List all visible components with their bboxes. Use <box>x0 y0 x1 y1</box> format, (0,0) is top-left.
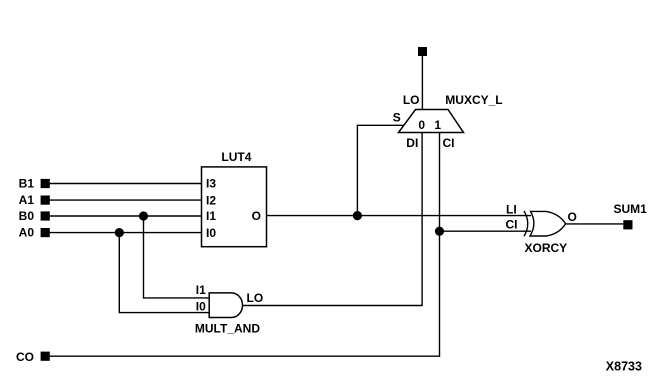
junction dot node CI <box>435 227 444 236</box>
MULT_AND AND gate U3 <box>209 293 242 318</box>
svg-text:CI: CI <box>506 218 518 232</box>
svg-text:MUXCY_L: MUXCY_L <box>445 93 502 107</box>
terminal CO <box>41 352 50 361</box>
terminal B0 <box>41 211 50 220</box>
wire XORCY O to SUM1 <box>566 223 624 225</box>
junction dot on B0 line <box>139 211 148 220</box>
terminal B1 <box>41 179 50 188</box>
wire CI branch to XORCY CI <box>440 230 532 232</box>
svg-text:CO: CO <box>16 350 34 364</box>
XORCY input arc <box>524 211 528 236</box>
svg-text:S: S <box>393 110 401 124</box>
svg-text:LI: LI <box>506 202 517 216</box>
svg-text:O: O <box>568 210 577 224</box>
svg-text:XORCY: XORCY <box>525 241 568 255</box>
svg-text:DI: DI <box>406 136 418 150</box>
svg-text:MULT_AND: MULT_AND <box>195 321 260 335</box>
svg-text:LO: LO <box>247 291 264 305</box>
wire B1 to LUT4 I3 <box>49 183 202 185</box>
LUT4 block U1 <box>202 167 267 247</box>
terminal SUM1 <box>623 220 632 229</box>
terminal top (MUXCY_L LO) <box>418 47 427 56</box>
svg-text:0: 0 <box>418 118 425 132</box>
svg-text:SUM1: SUM1 <box>614 202 648 216</box>
svg-text:LO: LO <box>403 93 420 107</box>
svg-text:A0: A0 <box>19 226 35 240</box>
junction dot node S on O line <box>353 211 362 220</box>
wire A1 to LUT4 I2 <box>49 199 202 201</box>
svg-text:A1: A1 <box>19 193 35 207</box>
svg-text:I0: I0 <box>206 226 216 240</box>
svg-text:1: 1 <box>434 118 441 132</box>
wire B0 branch to MULT_AND I1 <box>144 216 210 298</box>
MUXCY_L trapezoid U2 <box>399 110 464 133</box>
wire A0 branch to MULT_AND I0 <box>119 233 209 313</box>
svg-text:I0: I0 <box>196 299 206 313</box>
wire MUXCY_L LO to top terminal <box>421 51 423 110</box>
wire A0 to LUT4 I0 <box>49 232 202 234</box>
svg-text:O: O <box>252 209 261 223</box>
wire MULT_AND LO to MUXCY_L DI <box>243 133 423 306</box>
wire node S vertical to MUXCY_L S input <box>357 125 403 215</box>
svg-text:X8733: X8733 <box>606 359 642 373</box>
wire CO to MUXCY_L CI <box>49 133 440 357</box>
svg-text:I1: I1 <box>206 209 216 223</box>
XORCY gate U4 body <box>530 211 566 236</box>
wire B0 to LUT4 I1 <box>49 215 202 217</box>
svg-text:I3: I3 <box>206 177 216 191</box>
svg-text:I1: I1 <box>196 283 206 297</box>
svg-text:B0: B0 <box>19 209 35 223</box>
svg-text:I2: I2 <box>206 193 216 207</box>
terminal A1 <box>41 196 50 205</box>
svg-text:CI: CI <box>443 136 455 150</box>
terminal A0 <box>41 228 50 237</box>
svg-text:LUT4: LUT4 <box>221 150 251 164</box>
wire LUT4 O to XORCY LI <box>267 215 532 217</box>
svg-text:B1: B1 <box>19 177 35 191</box>
junction dot on A0 line <box>115 228 124 237</box>
